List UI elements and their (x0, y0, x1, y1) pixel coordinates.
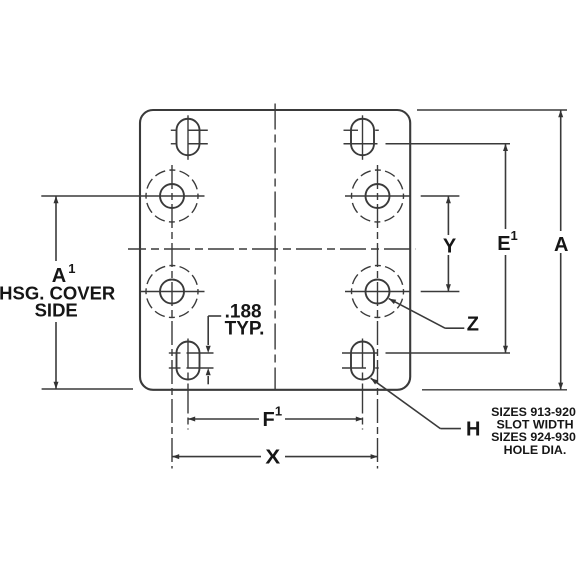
svg-text:1: 1 (511, 228, 518, 243)
dimension A right (417, 110, 567, 390)
arrowheads (54, 110, 564, 459)
slot BR (342, 339, 510, 430)
hole BR (345, 266, 410, 318)
svg-text:Z: Z (467, 314, 479, 336)
dimension Y (421, 196, 460, 292)
dimension E1 (505, 144, 507, 353)
svg-text:E: E (497, 233, 510, 255)
slot TR (344, 115, 511, 160)
hole column centerline left (171, 165, 173, 469)
dimension X (172, 456, 378, 458)
dimension F1 (188, 418, 363, 420)
E1 bottom extension line (342, 352, 378, 354)
svg-text:A: A (554, 234, 568, 256)
svg-text:SIZES 924-930: SIZES 924-930 (491, 430, 576, 444)
svg-text:F: F (263, 409, 275, 431)
slot BL (169, 339, 214, 430)
slot TL (171, 115, 208, 160)
E1 top extension line (344, 143, 378, 145)
svg-text:HOLE DIA.: HOLE DIA. (504, 443, 567, 457)
dimension A1 left (42, 196, 133, 389)
leader .188 TYP (208, 316, 221, 384)
hole TR (345, 170, 410, 222)
svg-text:1: 1 (68, 261, 75, 276)
svg-text:TYP.: TYP. (225, 318, 265, 339)
hole column centerline right (377, 165, 379, 469)
plate vertical centerline (274, 104, 276, 391)
hole BL (140, 266, 205, 318)
svg-text:X: X (265, 447, 281, 469)
svg-text:Y: Y (443, 236, 457, 258)
svg-text:1: 1 (275, 403, 282, 418)
leader Z (389, 299, 465, 329)
leader H (371, 378, 461, 428)
svg-text:SIDE: SIDE (35, 300, 78, 321)
svg-text:H: H (466, 419, 480, 441)
plate horizontal centerline (128, 248, 415, 250)
hole TL (41, 170, 204, 222)
plate outline (140, 110, 410, 390)
